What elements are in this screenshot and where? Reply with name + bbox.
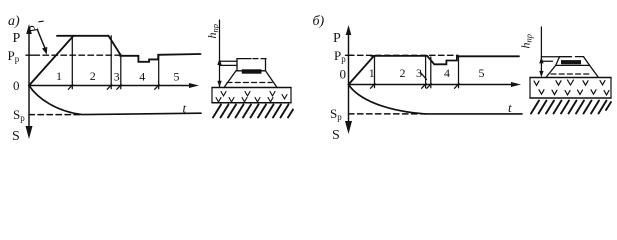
S axis (panel a)	[28, 86, 30, 128]
dashed line inside trapezoid (b)	[551, 73, 590, 75]
v marks in fill (a)	[216, 92, 287, 102]
Pp axis tick (b)	[346, 54, 353, 56]
cap slab (a)	[237, 58, 251, 60]
svg-text:hпр: hпр	[519, 34, 534, 49]
loading plateau and steps (b)	[371, 56, 519, 64]
h_pr dimension line (b)	[540, 27, 542, 75]
cap slab (b)	[560, 56, 572, 58]
delta-p leader arrow	[38, 30, 46, 50]
svg-text:Sр: Sр	[13, 107, 25, 123]
svg-text:Р: Р	[333, 31, 341, 46]
svg-text:Р: Р	[13, 31, 21, 46]
svg-text:1: 1	[369, 66, 375, 80]
settlement curve (b)	[349, 85, 523, 114]
P axis (panel b)	[348, 29, 350, 85]
loading ramp (panel a)	[29, 36, 74, 86]
stage boundary tick 2|3 (b)	[425, 56, 427, 88]
stage boundary tick 1|2	[71, 36, 73, 89]
bracket lines (a)	[220, 60, 238, 62]
t axis (panel b)	[349, 84, 515, 86]
stage boundary tick 3|4	[120, 55, 122, 89]
stage boundary tick 3|4 (b)	[430, 57, 432, 88]
stamp plate (black bar, a)	[242, 69, 262, 73]
svg-text:S: S	[12, 129, 20, 144]
svg-text:3: 3	[114, 69, 120, 83]
h_pr rotated label (a)	[205, 24, 220, 39]
delta-p overbar dash	[39, 20, 43, 23]
svg-text:5: 5	[479, 66, 485, 80]
svg-text:Рр: Рр	[8, 48, 20, 64]
ground surface (b)	[530, 77, 611, 79]
stage boundary tick 2|3	[110, 36, 112, 89]
hatched base soil (b)	[531, 101, 611, 114]
svg-text:t: t	[508, 100, 512, 115]
Sp dashed level (b)	[349, 113, 426, 115]
svg-text:2: 2	[90, 69, 96, 83]
Sp dashed level (panel a)	[29, 114, 82, 116]
h_pr dimension line (a)	[219, 20, 221, 87]
embankment trapezoid (a)	[224, 71, 277, 88]
hatched base soil (a)	[213, 105, 293, 118]
stage boundary tick 4|5	[158, 55, 160, 89]
loading ramp (b)	[349, 56, 375, 85]
fill band borders (b)	[529, 78, 531, 99]
dashed Pp level (b)	[349, 54, 459, 56]
bracket lines (b)	[541, 56, 559, 58]
svg-text:1: 1	[56, 69, 62, 83]
svg-text:hпр: hпр	[205, 24, 220, 39]
h_pr rotated label (b)	[519, 34, 534, 49]
svg-text:Sр: Sр	[330, 106, 342, 122]
svg-text:5: 5	[174, 70, 180, 84]
svg-text:0: 0	[340, 67, 347, 82]
leader from 3	[421, 73, 427, 80]
svg-text:S: S	[332, 128, 340, 143]
svg-text:а): а)	[8, 14, 20, 29]
svg-text:t: t	[183, 101, 187, 116]
embankment trapezoid (b)	[546, 65, 598, 77]
svg-text:Р: Р	[26, 24, 42, 33]
delta-p rotated label	[26, 24, 42, 33]
stage boundary tick 1|2 (b)	[374, 56, 376, 88]
svg-text:0: 0	[13, 78, 20, 93]
S axis (b)	[348, 85, 350, 123]
P axis (panel a)	[28, 28, 30, 86]
dashed Pp level line (panel a)	[26, 54, 33, 56]
ground surface (a)	[212, 87, 291, 89]
svg-text:Рр: Рр	[334, 48, 346, 64]
svg-text:2: 2	[400, 66, 406, 80]
stamp plate (black bar, b)	[561, 60, 581, 64]
loading plateau and steps (panel a)	[57, 36, 201, 62]
svg-text:4: 4	[139, 69, 145, 83]
dashed line inside trapezoid (a)	[227, 82, 272, 84]
fill band borders (a)	[211, 88, 213, 103]
v marks in fill (b)	[534, 80, 609, 95]
settlement curve (panel a)	[29, 86, 201, 115]
svg-text:4: 4	[444, 66, 450, 80]
t axis (panel a)	[29, 85, 192, 87]
svg-text:б): б)	[313, 14, 325, 29]
stage boundary tick 4|5 (b)	[458, 56, 460, 88]
